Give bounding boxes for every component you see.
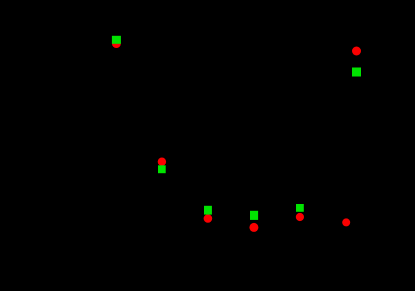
LED L2 (red lamp, top-right)	[352, 47, 361, 56]
LED L1 (red lamp, top-left, behind pin)	[112, 39, 121, 48]
LED L4 (red lamp, bottom row 1, behind pin)	[204, 214, 213, 223]
pin P4 (green square, bottom row 1)	[204, 206, 212, 215]
pin P3 (green square, mid-left)	[158, 165, 166, 173]
LED L6 (red lamp, bottom row 3)	[296, 213, 304, 221]
pin P6 (green square, bottom row 3)	[296, 204, 304, 212]
LED L5 (red lamp, bottom row 2)	[249, 223, 258, 232]
LED L3 (red lamp, mid-left, behind pin)	[158, 158, 166, 166]
pin P5 (green square, bottom row 2)	[250, 211, 258, 220]
pin P1 (green square, top-left)	[112, 36, 121, 44]
LED L7 (red lamp, bottom right, no pin visible)	[342, 218, 350, 226]
pin P2 (green square, top-right)	[352, 68, 361, 77]
